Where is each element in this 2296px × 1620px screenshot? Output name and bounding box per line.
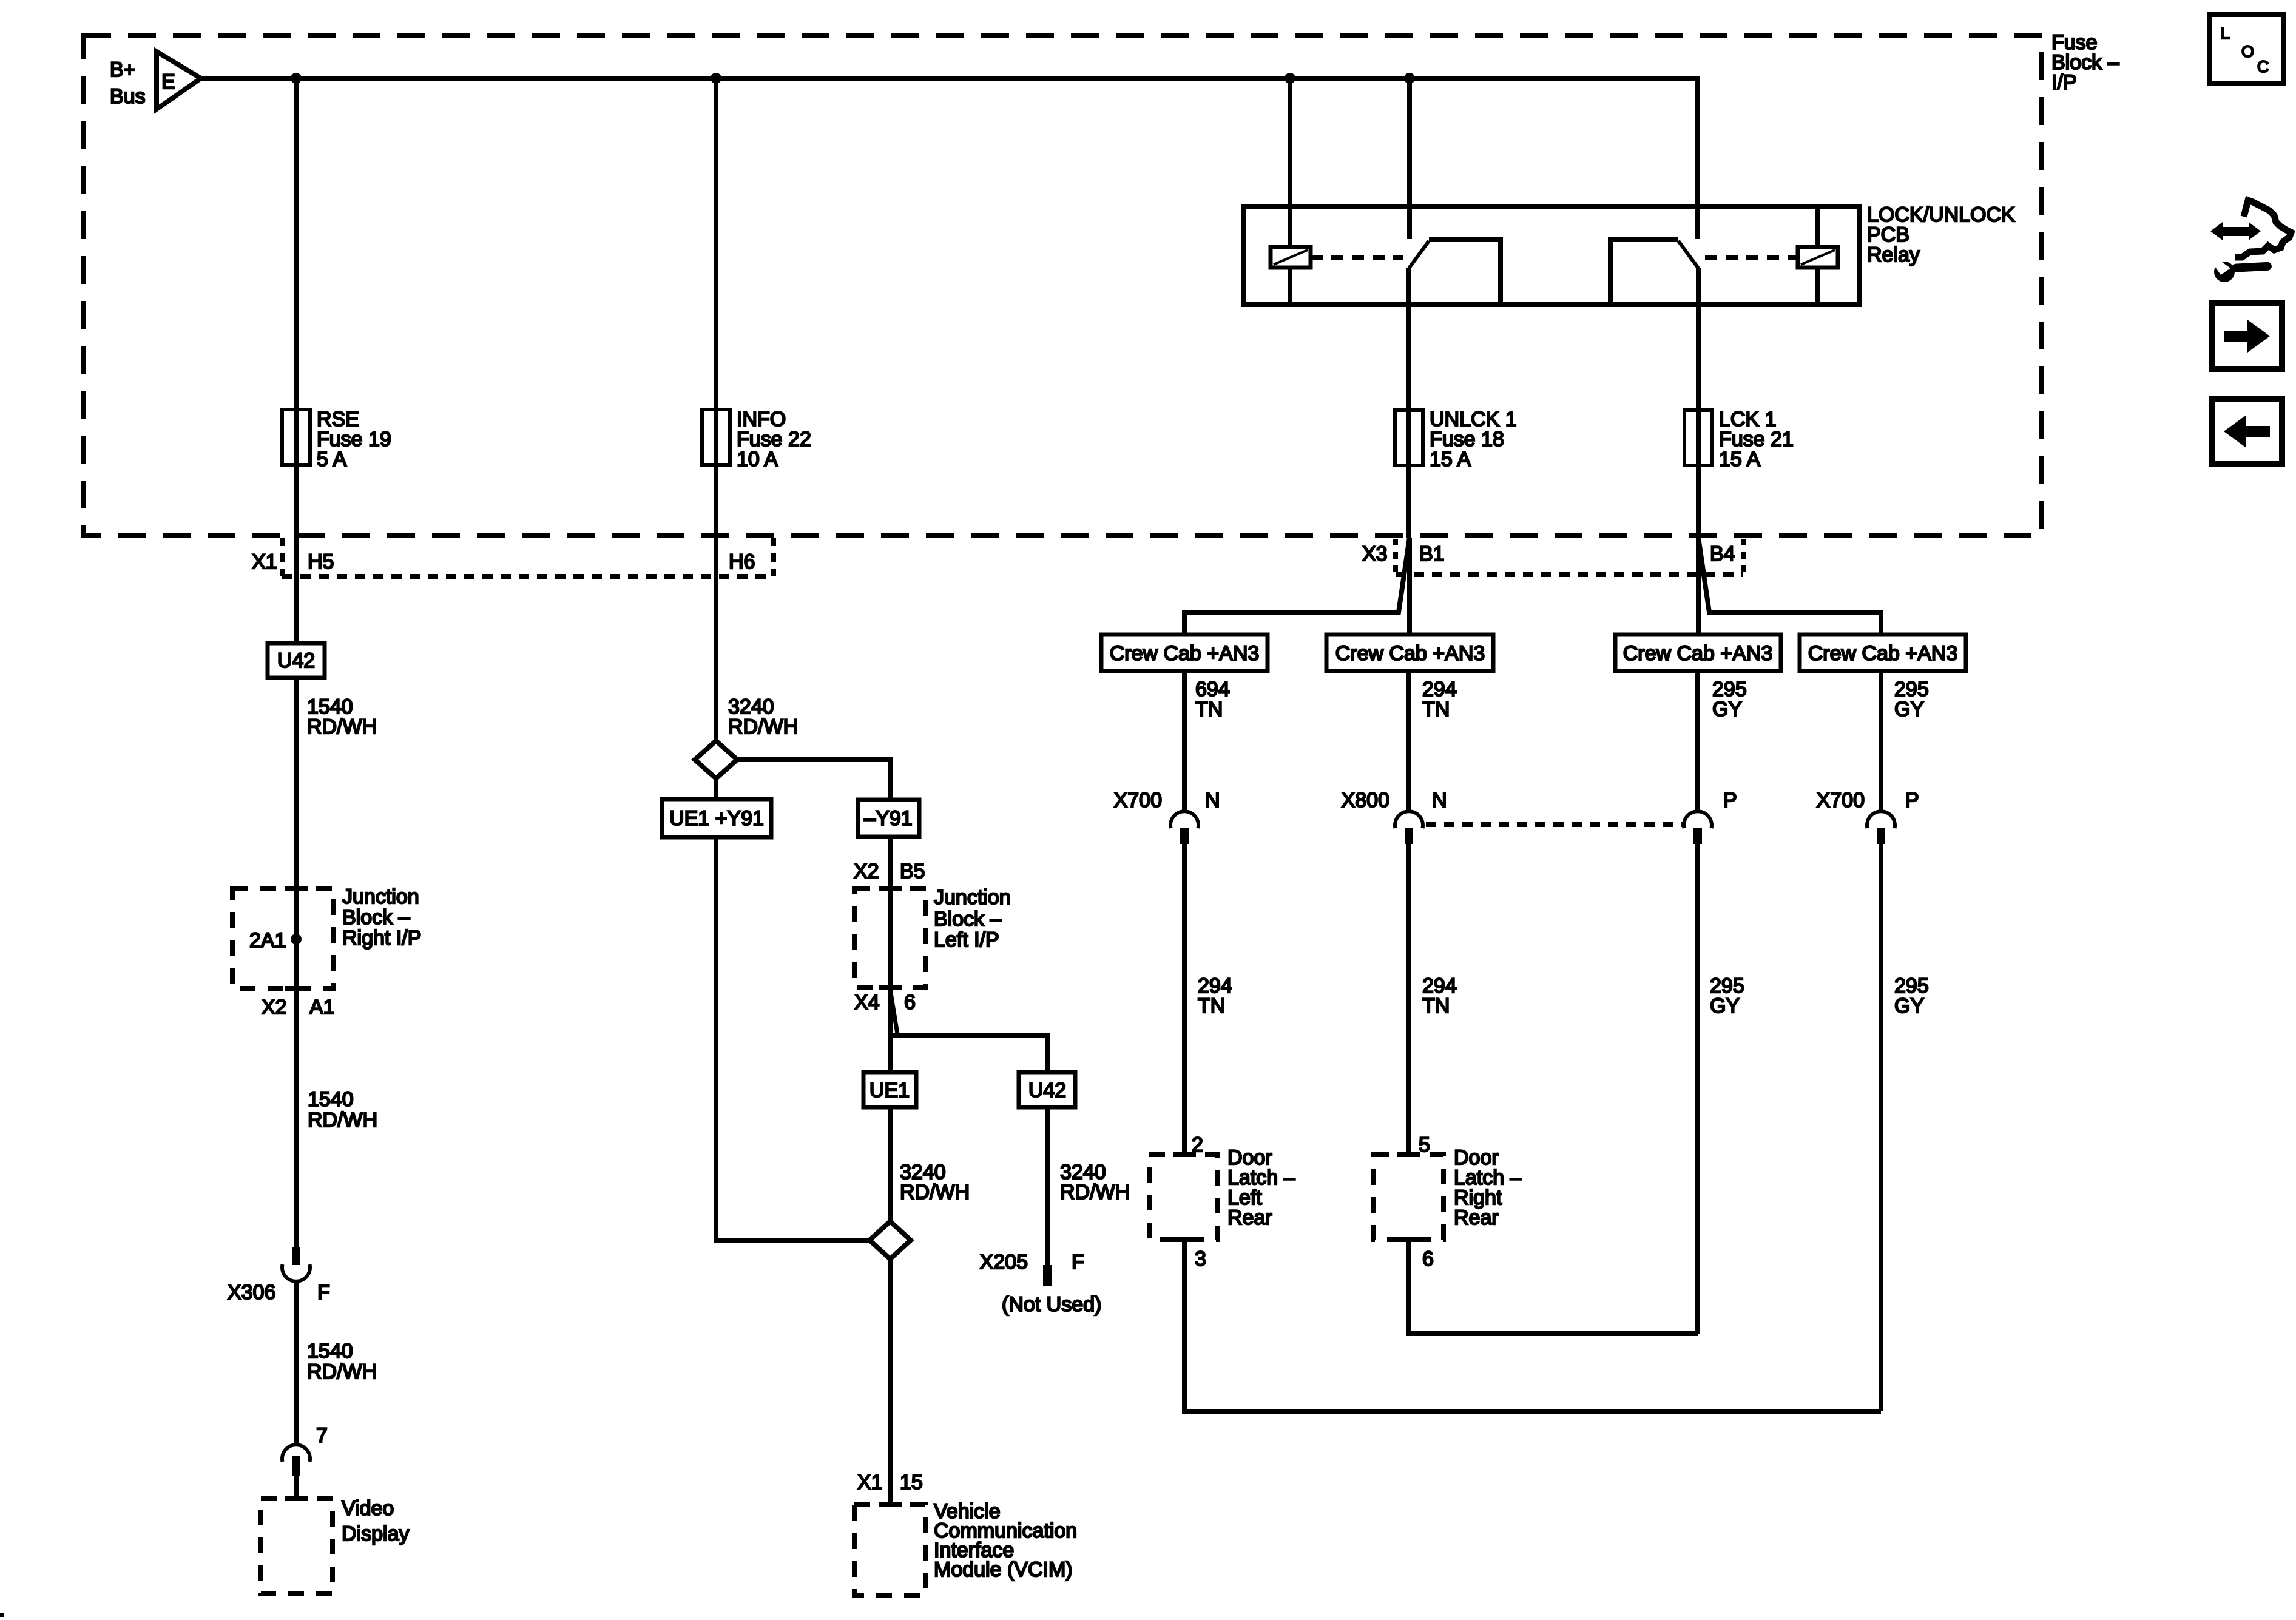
- svg-text:TN: TN: [1422, 994, 1450, 1018]
- svg-text:X306: X306: [228, 1281, 275, 1304]
- svg-text:15: 15: [900, 1471, 923, 1494]
- svg-text:B4: B4: [1710, 542, 1735, 565]
- svg-text:F: F: [1072, 1250, 1084, 1274]
- svg-text:Crew Cab +AN3: Crew Cab +AN3: [1808, 642, 1958, 665]
- svg-text:F: F: [317, 1281, 330, 1304]
- svg-text:P: P: [1723, 789, 1737, 812]
- svg-text:Junction: Junction: [342, 885, 419, 908]
- svg-text:6: 6: [1422, 1247, 1434, 1271]
- svg-text:TN: TN: [1422, 698, 1450, 721]
- svg-text:Video: Video: [342, 1497, 394, 1520]
- svg-text:RD/WH: RD/WH: [900, 1181, 970, 1204]
- svg-text:RD/WH: RD/WH: [308, 1109, 377, 1132]
- svg-text:A1: A1: [309, 996, 335, 1019]
- svg-text:Block –: Block –: [934, 908, 1002, 931]
- svg-text:TN: TN: [1195, 698, 1223, 721]
- svg-text:2A1: 2A1: [249, 929, 286, 952]
- svg-text:TN: TN: [1198, 994, 1225, 1018]
- svg-text:I/P: I/P: [2051, 71, 2077, 94]
- svg-text:P: P: [1905, 789, 1919, 812]
- svg-text:X2: X2: [854, 860, 879, 883]
- svg-text:(Not Used): (Not Used): [1002, 1293, 1101, 1316]
- svg-text:Junction: Junction: [934, 886, 1011, 909]
- svg-text:15 A: 15 A: [1719, 448, 1760, 471]
- svg-text:O: O: [2241, 42, 2254, 61]
- svg-text:X1: X1: [252, 550, 277, 573]
- svg-text:RD/WH: RD/WH: [307, 715, 377, 738]
- svg-text:Rear: Rear: [1227, 1206, 1272, 1229]
- svg-text:RD/WH: RD/WH: [1060, 1181, 1130, 1204]
- svg-text:5: 5: [1419, 1133, 1430, 1156]
- svg-text:H5: H5: [308, 550, 334, 573]
- svg-text:X2: X2: [262, 996, 287, 1019]
- svg-text:Rear: Rear: [1454, 1206, 1499, 1229]
- svg-text:Crew Cab +AN3: Crew Cab +AN3: [1335, 642, 1485, 665]
- svg-text:2: 2: [1192, 1133, 1203, 1156]
- svg-text:5 A: 5 A: [317, 448, 346, 471]
- svg-text:3: 3: [1195, 1247, 1206, 1271]
- svg-text:15 A: 15 A: [1430, 448, 1471, 471]
- svg-text:X700: X700: [1817, 789, 1865, 812]
- svg-text:Bus: Bus: [110, 85, 146, 108]
- svg-text:X1: X1: [857, 1471, 883, 1494]
- svg-text:X205: X205: [980, 1250, 1028, 1274]
- svg-text:B5: B5: [900, 860, 925, 883]
- svg-text:GY: GY: [1712, 698, 1742, 721]
- svg-text:N: N: [1205, 789, 1220, 812]
- svg-text:UE1: UE1: [869, 1079, 910, 1102]
- svg-text:GY: GY: [1894, 994, 1924, 1018]
- svg-text:Module (VCIM): Module (VCIM): [934, 1558, 1073, 1581]
- svg-text:RD/WH: RD/WH: [307, 1360, 377, 1383]
- svg-text:Right I/P: Right I/P: [342, 926, 421, 950]
- svg-text:X700: X700: [1114, 789, 1162, 812]
- svg-text:UE1 +Y91: UE1 +Y91: [669, 807, 764, 830]
- svg-text:1540: 1540: [308, 1088, 354, 1111]
- svg-text:U42: U42: [1028, 1079, 1066, 1102]
- svg-text:Left I/P: Left I/P: [934, 928, 999, 951]
- svg-text:Relay: Relay: [1867, 243, 1920, 266]
- svg-text:Crew Cab +AN3: Crew Cab +AN3: [1110, 642, 1260, 665]
- svg-text:1540: 1540: [307, 1340, 353, 1363]
- svg-text:X4: X4: [854, 991, 880, 1014]
- svg-text:–Y91: –Y91: [864, 807, 912, 830]
- svg-text:C: C: [2257, 58, 2269, 76]
- svg-text:Display: Display: [342, 1522, 409, 1545]
- svg-text:B+: B+: [110, 58, 136, 81]
- svg-text:Block –: Block –: [342, 906, 410, 929]
- svg-text:B1: B1: [1419, 542, 1445, 565]
- svg-text:X800: X800: [1342, 789, 1389, 812]
- svg-text:N: N: [1432, 789, 1447, 812]
- svg-text:H6: H6: [729, 550, 755, 573]
- svg-text:L: L: [2221, 24, 2230, 42]
- svg-text:GY: GY: [1894, 698, 1924, 721]
- svg-text:Crew Cab +AN3: Crew Cab +AN3: [1623, 642, 1773, 665]
- svg-text:GY: GY: [1710, 994, 1740, 1018]
- svg-text:E: E: [161, 70, 175, 93]
- svg-text:10 A: 10 A: [737, 448, 778, 471]
- svg-text:X3: X3: [1362, 542, 1388, 565]
- svg-text:U42: U42: [277, 649, 315, 672]
- svg-text:6: 6: [904, 991, 916, 1014]
- svg-text:RD/WH: RD/WH: [728, 715, 798, 738]
- svg-text:7: 7: [316, 1424, 328, 1447]
